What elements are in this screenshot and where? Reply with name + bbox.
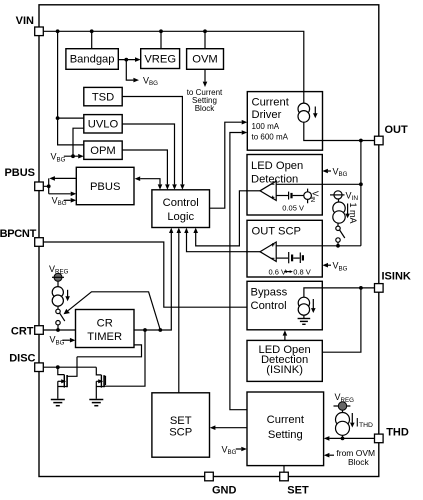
wire VBG arrow OUT SCP [328,264,331,266]
pin THD [375,426,409,442]
ground at bypass source [298,315,311,324]
arrow VBG into OPM [78,154,84,159]
transistor Q1 left discharge MOSFET [58,357,77,399]
svg-text:UVLO: UVLO [88,119,119,131]
pin SET [280,472,309,496]
svg-text:0.8 V: 0.8 V [293,267,311,276]
ground at Q2 [89,400,103,406]
arrow TSD into Control Logic [180,184,185,189]
wire CRT pin to CR Timer [43,329,75,331]
svg-text:OUT: OUT [385,124,409,136]
block OUT SCP [247,220,322,277]
arrow from OVM into Current Setting [324,453,330,458]
block VREG [141,49,180,69]
switch CRT [56,309,65,330]
svg-text:Block: Block [195,104,216,113]
wire VBG to OPM and UVLO [64,128,84,156]
arrow VBG into OUT SCP box [322,263,328,268]
wire driver source to OUT pin [304,122,375,140]
svg-text:Control: Control [163,197,199,209]
wire VBG arrow LED [328,170,331,172]
svg-text:SET: SET [170,415,192,427]
svg-text:(ISINK): (ISINK) [266,364,303,376]
block CR Timer [76,310,135,348]
svg-text:Block: Block [348,457,370,467]
ground at Q1 [51,400,65,406]
svg-text:VREG: VREG [144,53,176,65]
arrow into Control Logic top from PBUS wire [158,184,163,189]
wire BPCNT to Bypass Control [43,242,247,307]
pin ISINK [375,271,411,293]
svg-text:Logic: Logic [167,211,194,223]
svg-text:Bypass: Bypass [251,287,288,299]
block SET SCP [152,393,210,457]
arrow PBUS output left [49,176,55,181]
node switch junction on sense line [336,244,340,248]
svg-text:VIN: VIN [16,15,34,27]
current source CRT charge [52,287,63,307]
wire LED Open Detection output to Control Logic [196,191,260,246]
svg-text:Driver: Driver [252,109,282,121]
svg-text:0.05 V: 0.05 V [282,204,304,213]
wire tap to current source [57,281,59,286]
wire comparator plus input to reference [276,195,288,197]
arrow current direction driver [313,107,318,119]
block PBUS [76,167,134,204]
wire comparator minus input to OUT sense [276,183,361,185]
pin BPCNT [0,228,43,246]
node PBUS pin junction [47,184,51,188]
svg-text:OUT SCP: OUT SCP [252,226,302,238]
wire VBG to CR Timer [62,339,70,341]
svg-text:SET: SET [287,485,309,497]
node OUT branch [359,139,363,143]
arrow switch control [64,309,70,314]
arrow current direction 1mA [345,204,350,219]
node ISINK branch [359,286,363,290]
wire rail to Bandgap top [91,31,93,48]
node CR Timer output discharge branch [143,328,147,332]
node CR Timer output diagonal branch [158,328,162,332]
svg-text:THD: THD [386,426,409,438]
node rail-UVLO branch [56,29,60,33]
block Control Logic [152,190,210,228]
svg-text:TIMER: TIMER [87,331,122,343]
IC boundary box [39,5,379,477]
svg-text:Bandgap: Bandgap [70,54,115,66]
pin OUT [375,124,409,145]
transistor Q2 right discharge MOSFET [96,367,105,399]
node VIN-UVLO junction [56,116,60,120]
node VBG branch [71,154,75,158]
arrow pin into PBUS [71,192,77,197]
pin PBUS [4,167,43,191]
wire OUT sense vertical [360,141,362,246]
arrow VBG into LED box [322,169,328,174]
arrow SET SCP output into Control Logic [177,228,182,233]
svg-text:CRT: CRT [11,325,34,337]
block OVM [187,49,224,70]
wire Bandgap output to VREG [118,59,135,61]
arrow into Bypass Control bottom [283,330,288,335]
power tap VIN test source [330,191,345,199]
arrow LED output into Control Logic [193,228,198,233]
wire DISC pin to transistor gates [43,366,96,368]
svg-text:to 600 mA: to 600 mA [252,133,289,142]
svg-text:BPCNT: BPCNT [0,228,37,240]
pin VIN [16,15,44,36]
arrow OPM into Control Logic [165,184,170,189]
node rail-VREG branch [159,29,163,33]
pin GND [205,472,237,496]
node DISC gate branch [56,365,60,369]
svg-text:Current: Current [267,414,305,426]
battery 0.05V reference [289,192,304,200]
svg-text:LED Open: LED Open [251,160,303,172]
wire SET SCP output to Control Logic [178,233,180,393]
wire OPM output to Control Logic [122,150,167,184]
arrow VBG into PBUS [71,198,77,203]
wire Current Setting to SET SCP [215,427,247,429]
wire from OVM arrow [329,454,334,456]
svg-text:OVM: OVM [192,54,217,66]
wire rail to VREG top [160,31,162,48]
svg-text:100 mA: 100 mA [252,122,280,131]
arrow into Current Driver input A [242,120,248,125]
op-amp comparator OUT SCP [246,242,276,261]
arrow into Current Driver input B [242,130,248,135]
wire VBG to PBUS [64,199,71,201]
node rail-OVM branch [203,29,207,33]
arrow VBG into CR Timer [70,338,76,343]
wire THD source to THD pin [329,435,374,438]
wire Current Setting to Current Driver input B [230,133,247,410]
wire source to switch [57,306,59,309]
wire tap to THD source [342,410,344,413]
block LED Open Detection ISINK [247,340,322,381]
arrow OUT SCP output into Control Logic [184,228,188,233]
arrow current direction CRT [65,290,70,301]
wire OVM output down [204,69,206,81]
svg-text:0.6 V: 0.6 V [269,267,287,276]
svg-text:Control: Control [251,300,287,312]
wire Bandgap VBG stub [126,60,133,81]
block OPM [84,141,122,159]
battery 0.6-0.8V reference [289,252,303,263]
node THD junction [341,437,345,441]
pin DISC [9,352,43,371]
svg-text:Current: Current [252,96,290,108]
wire Q2 source to CRT net [104,330,145,386]
wire TSD output to Control Logic [122,97,182,185]
svg-text:GND: GND [212,485,237,497]
svg-text:Setting: Setting [268,429,303,441]
svg-text:1 mA: 1 mA [348,203,358,224]
block Current Driver [247,92,322,151]
node OUT sense upper [359,182,363,186]
op-amp comparator LED open [246,181,276,200]
svg-text:SCP: SCP [169,427,192,439]
arrow THD into Current Setting [324,436,330,441]
svg-text:DISC: DISC [9,352,35,364]
wire LED ISINK to Bypass Control [284,336,286,341]
arrow OVM output [203,82,208,87]
arrow CR Timer output into Control Logic [169,228,173,233]
wire VBG to Current Setting [236,448,242,450]
arrow VBG into Current Setting [241,447,247,452]
svg-text:PBUS: PBUS [90,181,120,193]
power tap VN reference [304,189,312,204]
wire tap to 1mA source [338,199,340,202]
wire Q1 drain to CR Timer [77,345,142,357]
node rail-Bandgap branch [90,29,94,33]
svg-text:ISINK: ISINK [382,271,411,283]
arrow into PBUS right edge [135,176,141,181]
wire CR Timer output to Control Logic [134,233,171,330]
switch LED open test [336,223,345,246]
node Bandgap output branch [124,58,128,62]
current source ITHD [336,413,350,436]
power tap VREG for THD [334,402,351,410]
block Current Setting [247,392,324,466]
pin CRT [11,325,43,337]
wire bypass to ISINK pin [304,288,375,298]
arrow current direction ITHD [350,413,355,428]
wire ISINK sense to LED open ISINK [322,288,361,352]
block Bandgap [66,49,118,70]
wire PBUS pin branch [43,178,76,193]
svg-text:PBUS: PBUS [4,167,35,179]
wire switch control from CR Timer [68,292,160,330]
arrow into SET SCP right edge [210,425,216,430]
wire OUT SCP output to Control Logic [187,233,261,252]
wire comparator minus input to reference [276,257,288,259]
wire UVLO output to Control Logic [122,124,174,184]
power tap VREG for CRT [52,273,64,281]
arrow UVLO into Control Logic [172,184,177,189]
svg-text:CR: CR [97,318,113,330]
block LED Open Detection [247,155,322,216]
svg-text:TSD: TSD [92,92,114,104]
wire rail to OVM top [204,31,206,48]
node switch to CRT wire [56,328,60,332]
arrow VBG stub [133,78,139,83]
wire VIN to UVLO and OPM [58,31,84,145]
wire comparator plus input to OUT sense [276,245,361,247]
current source 1mA [333,202,345,223]
block Bypass Control [247,281,322,330]
wire SET stub [283,466,285,473]
current source U1 output driver [298,92,310,123]
arrow current direction bypass [311,299,316,313]
block TSD [84,87,122,105]
current source bypass [298,297,309,315]
svg-text:OPM: OPM [90,145,115,157]
wire Control Logic to PBUS [140,179,160,185]
wire Control Logic to Current Driver upper input [210,122,242,208]
wire VIN rail [43,31,304,92]
arrow into VREG [135,57,141,62]
block UVLO [84,115,122,133]
